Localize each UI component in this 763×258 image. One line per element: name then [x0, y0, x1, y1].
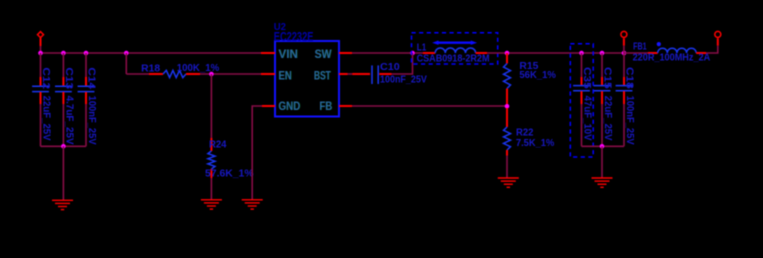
svg-text:FB: FB [319, 99, 332, 113]
svg-text:100nF_25V: 100nF_25V [380, 74, 427, 85]
svg-text:BST: BST [314, 69, 331, 83]
ground (IC GND) [242, 200, 263, 209]
capacitor C35 (dashed box) [570, 44, 593, 157]
svg-text:L1: L1 [417, 42, 427, 53]
svg-text:C14: C14 [86, 67, 97, 89]
wire R24 drop [210, 74, 212, 138]
pin SW [339, 52, 352, 54]
wire to input ground [62, 146, 64, 200]
pin GND [262, 105, 275, 107]
port VOUT2 (circle) [715, 31, 721, 45]
svg-text:C13: C13 [63, 67, 74, 89]
node rail/C14 [84, 51, 89, 56]
wire L1 to output rail [487, 52, 624, 54]
svg-text:47uF_10V: 47uF_10V [581, 96, 592, 141]
svg-text:CSAB0918-2R2M: CSAB0918-2R2M [417, 53, 490, 64]
capacitor C18 [616, 53, 635, 146]
wire R18 to EN pin [200, 73, 261, 75]
wire to output ground [601, 146, 603, 177]
node rail/EN branch [124, 51, 129, 56]
svg-text:C10: C10 [380, 62, 400, 73]
svg-text:EN: EN [278, 69, 291, 83]
node out/C15 [600, 51, 605, 56]
svg-text:C18: C18 [624, 67, 635, 89]
svg-text:56K_1%: 56K_1% [519, 70, 556, 81]
wire port stub to rail [40, 46, 42, 53]
node out/C35 [579, 51, 584, 56]
node rail/C13 [61, 51, 66, 56]
svg-text:22uF_25V: 22uF_25V [40, 96, 51, 141]
pin EN [261, 73, 275, 75]
wire port1 stub [623, 46, 625, 53]
ground (input caps) [52, 200, 73, 209]
wire SW to L1 [352, 52, 423, 54]
wire output caps bottom rail [582, 145, 625, 147]
svg-text:SW: SW [315, 47, 333, 61]
wire EN branch drop [125, 53, 127, 74]
ground (R22) [498, 178, 519, 187]
ground (R24) [201, 200, 222, 209]
svg-text:GND: GND [278, 99, 300, 113]
wire FB to divider [352, 105, 507, 107]
inductor L1 (dashed box) [412, 33, 498, 65]
node out/R15 [505, 51, 510, 56]
svg-text:57.6K_1%: 57.6K_1% [205, 169, 254, 180]
op IC U2 EC2232E [261, 21, 352, 117]
wire BST stub gap [348, 73, 353, 75]
svg-text:C15: C15 [602, 67, 613, 89]
wire input top rail [41, 52, 262, 54]
svg-text:R18: R18 [141, 64, 160, 75]
node EN/R24 [209, 72, 214, 77]
svg-text:100nF_25V: 100nF_25V [86, 96, 97, 145]
svg-text:VIN: VIN [278, 47, 298, 61]
wire EN branch to R18 [126, 73, 149, 75]
resistor R22 [504, 108, 555, 156]
port VOUT1 (circle) [621, 31, 627, 45]
node rail/C12 [38, 51, 43, 56]
svg-text:100nF_25V: 100nF_25V [624, 96, 635, 145]
wire FB1 to port2 [706, 46, 718, 53]
capacitor C10 (BST) [352, 62, 427, 85]
pin VIN [261, 52, 275, 54]
node out/port [622, 51, 627, 56]
node FB/divider [505, 104, 510, 109]
capacitor C14 [78, 53, 97, 146]
ferrite bead FB1 [624, 41, 710, 63]
wire R24 to ground [210, 178, 212, 200]
svg-text:C35: C35 [581, 67, 592, 89]
svg-text:4.7uF_25V: 4.7uF_25V [63, 96, 74, 145]
svg-text:R24: R24 [209, 139, 227, 150]
wire R22 to ground [506, 156, 508, 178]
capacitor C13 [55, 53, 74, 146]
svg-text:22uF_25V: 22uF_25V [602, 96, 613, 141]
svg-text:220R_100MHz_2A: 220R_100MHz_2A [633, 53, 711, 64]
node SW/C10 [410, 51, 415, 56]
wire input caps bottom rail [41, 145, 87, 147]
svg-text:FB1: FB1 [633, 41, 647, 52]
resistor R24 [205, 138, 254, 180]
capacitor C12 [32, 53, 51, 146]
port VIN (diamond, top-left) [38, 32, 44, 46]
wire C10 to SW node [392, 53, 413, 74]
node bottom rail/ground [61, 144, 66, 149]
svg-text:R22: R22 [516, 127, 534, 138]
pin FB [339, 105, 352, 107]
pin BST [339, 73, 348, 75]
svg-text:C12: C12 [40, 67, 51, 89]
capacitor C15 [594, 53, 613, 146]
svg-text:EC2232E: EC2232E [274, 30, 314, 44]
ground (output caps) [592, 178, 613, 187]
wire GND pin to ground [252, 106, 262, 200]
svg-text:7.5K_1%: 7.5K_1% [516, 138, 554, 149]
node output bottom rail [600, 144, 605, 149]
resistor R18 [141, 63, 219, 77]
resistor R15 [504, 53, 557, 105]
